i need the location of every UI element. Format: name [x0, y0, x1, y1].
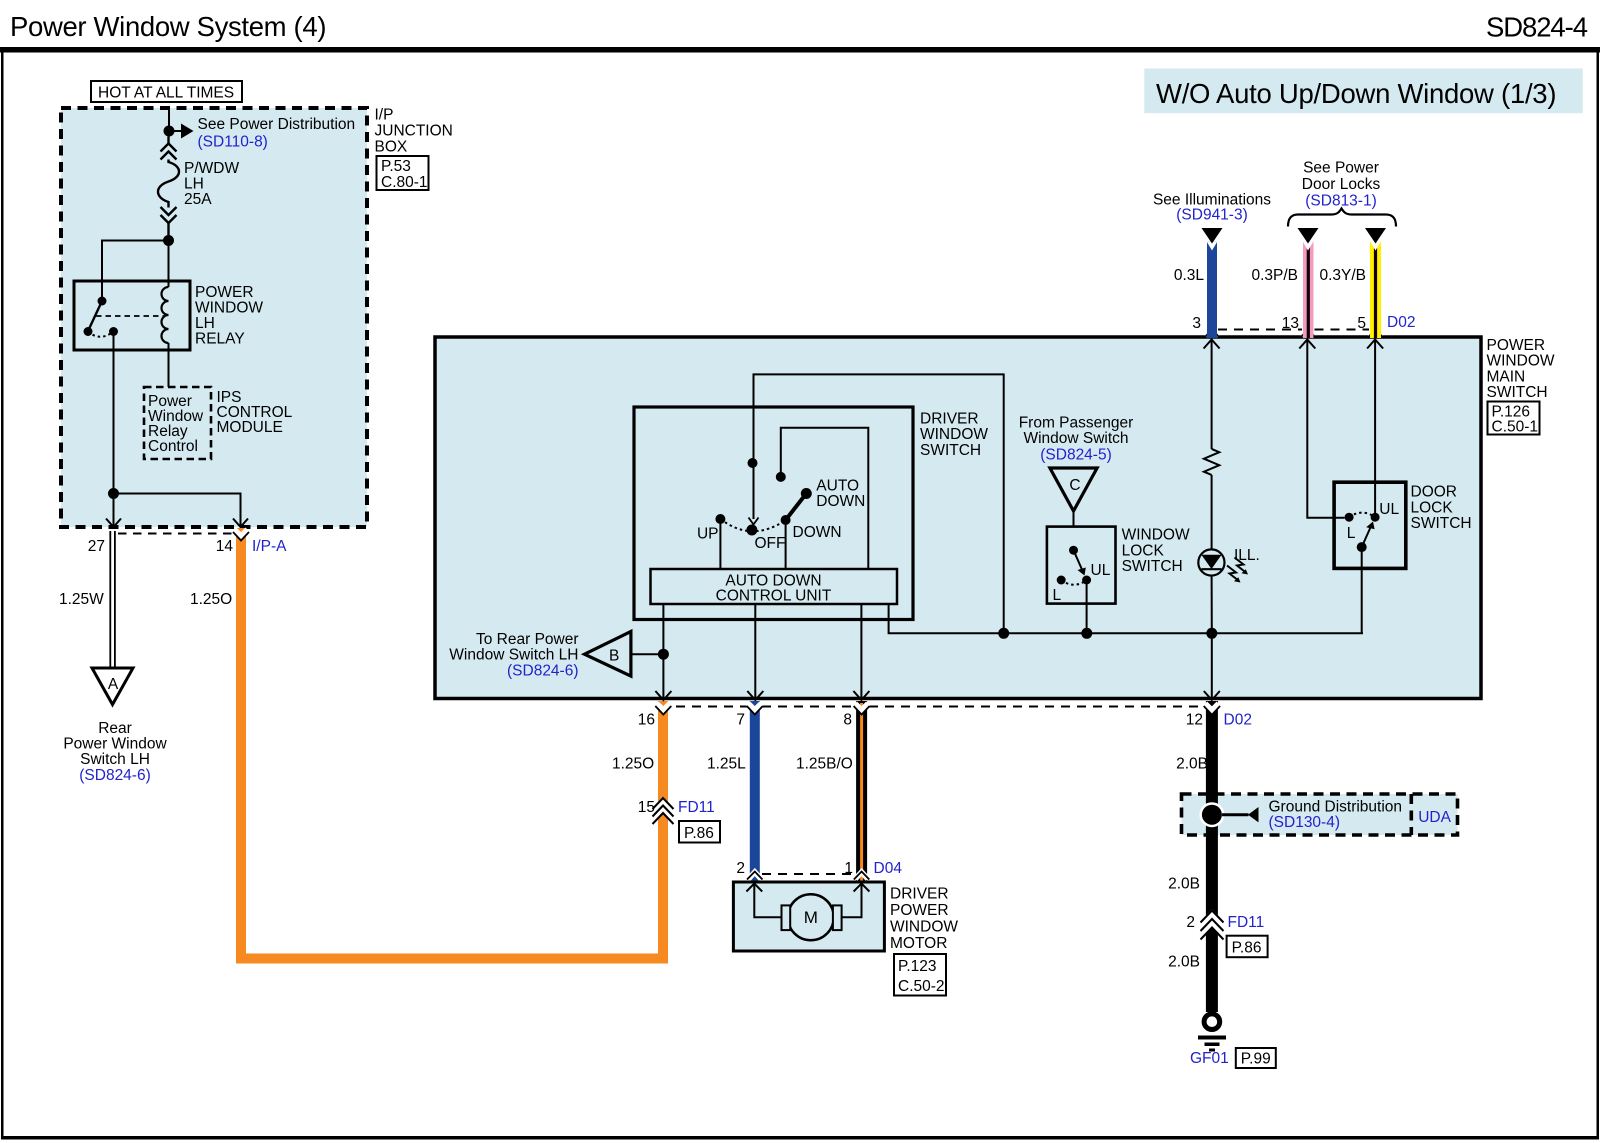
- svg-text:DOWN: DOWN: [793, 524, 842, 541]
- svg-text:DOOR: DOOR: [1411, 484, 1458, 501]
- node on common wire: [748, 458, 758, 468]
- ILL lamp: [1198, 549, 1224, 575]
- bottom page border: [1, 1136, 1599, 1140]
- DOWN contact: [781, 515, 791, 525]
- wire 1.25B/O (black/orange) to motor: [856, 701, 867, 883]
- svg-text:LH: LH: [184, 176, 204, 193]
- wire bus to pin 12: [1211, 633, 1213, 697]
- svg-text:0.3Y/B: 0.3Y/B: [1319, 267, 1366, 284]
- svg-text:P.53: P.53: [381, 158, 411, 175]
- P.99 page box: [1236, 1048, 1276, 1068]
- svg-text:D04: D04: [874, 860, 903, 877]
- ground distribution dashed box: [1182, 794, 1458, 835]
- black ground wire 2.0B: [1206, 701, 1218, 1012]
- off-page triangle A: [92, 668, 133, 705]
- resistor: [1204, 449, 1219, 475]
- svg-text:P.86: P.86: [684, 825, 714, 842]
- svg-text:25A: 25A: [184, 191, 212, 208]
- svg-text:SWITCH: SWITCH: [1122, 558, 1183, 575]
- wire to relay switch: [102, 241, 169, 282]
- P.86 page box: [679, 821, 720, 843]
- dotted travel arc: [720, 519, 785, 531]
- header rule: [0, 47, 1600, 53]
- window lock switch contacts: [1069, 546, 1078, 555]
- wire window lock to bus: [1086, 580, 1088, 633]
- svg-text:BOX: BOX: [375, 139, 408, 156]
- svg-text:1.25W: 1.25W: [59, 591, 104, 608]
- node at branch: [108, 488, 119, 499]
- P.123 C.50-2 page box: [894, 954, 946, 996]
- svg-text:DRIVER: DRIVER: [890, 886, 949, 903]
- ground distribution arrow: [1222, 813, 1249, 816]
- svg-text:JUNCTION: JUNCTION: [375, 123, 453, 140]
- svg-text:A: A: [108, 676, 119, 693]
- auto-down sense contact: [776, 472, 786, 482]
- window lock switch box: [1047, 527, 1116, 604]
- svg-text:POWER: POWER: [195, 284, 254, 301]
- IPS control module dashed box: [144, 387, 211, 459]
- svg-text:L: L: [1347, 525, 1356, 542]
- svg-text:HOT AT ALL TIMES: HOT AT ALL TIMES: [98, 85, 234, 102]
- svg-text:C.50-2: C.50-2: [898, 978, 945, 995]
- power window main switch box: [435, 337, 1481, 699]
- door lock switch box: [1334, 482, 1406, 568]
- control unit output to pin 8: [860, 604, 862, 697]
- svg-text:See Power: See Power: [1303, 160, 1379, 177]
- wire lamp to bus: [1211, 576, 1213, 634]
- auto-down sense wire: [781, 428, 869, 569]
- wire DOWN contact to control unit: [785, 520, 787, 569]
- wire 0.3P/B (pink): [1303, 242, 1314, 339]
- node (junction dot): [164, 126, 175, 137]
- svg-text:(SD824-6): (SD824-6): [507, 663, 579, 680]
- relay actuation dashed link: [96, 315, 164, 317]
- svg-text:Switch LH: Switch LH: [80, 751, 150, 768]
- node at B triangle tap: [658, 649, 669, 660]
- svg-text:To Rear Power: To Rear Power: [476, 631, 579, 648]
- svg-text:P.86: P.86: [1232, 940, 1262, 957]
- svg-text:C.80-1: C.80-1: [381, 174, 428, 191]
- svg-text:MODULE: MODULE: [217, 419, 283, 436]
- node below fuse: [163, 235, 174, 246]
- right page border: [1597, 52, 1600, 1139]
- fuse P/WDW LH 25A: [158, 137, 179, 241]
- svg-text:M: M: [804, 908, 818, 927]
- brace over door lock wires: [1288, 209, 1396, 227]
- svg-text:SWITCH: SWITCH: [920, 442, 981, 459]
- svg-text:P.99: P.99: [1241, 1051, 1271, 1068]
- junction node with white ring: [1199, 802, 1224, 827]
- wire relay coil to IPS module: [168, 343, 170, 387]
- svg-text:MOTOR: MOTOR: [890, 935, 947, 952]
- svg-text:2.0B: 2.0B: [1168, 954, 1200, 971]
- wire 1.25W (double line) to rear switch: [109, 531, 111, 668]
- connector D04 dashed line: [762, 873, 854, 875]
- connector I/P-A dashed line: [118, 533, 236, 535]
- off-page triangle B: [631, 653, 664, 655]
- wire C to window lock switch: [1073, 511, 1075, 527]
- svg-text:Window Switch: Window Switch: [1023, 430, 1128, 447]
- svg-text:I/P-A: I/P-A: [252, 538, 287, 555]
- svg-text:Door Locks: Door Locks: [1302, 176, 1381, 193]
- svg-text:1.25O: 1.25O: [190, 591, 232, 608]
- svg-text:Window Switch LH: Window Switch LH: [449, 647, 578, 664]
- svg-text:From Passenger: From Passenger: [1019, 415, 1134, 432]
- svg-text:L: L: [1053, 587, 1062, 604]
- svg-text:SD824-4: SD824-4: [1486, 12, 1588, 43]
- lamp light arrows: [1227, 566, 1239, 582]
- svg-text:(SD813-1): (SD813-1): [1305, 193, 1377, 210]
- svg-text:2.0B: 2.0B: [1168, 876, 1200, 893]
- connector-source triangle: [1202, 228, 1223, 244]
- svg-text:D02: D02: [1224, 712, 1252, 729]
- wire 0.3L (blue): [1207, 242, 1217, 339]
- svg-text:ILL.: ILL.: [1234, 547, 1260, 564]
- svg-text:Rear: Rear: [98, 720, 132, 737]
- FD11 inline connector chevrons on orange wire: [653, 798, 674, 824]
- HOT AT ALL TIMES label box: [91, 81, 242, 102]
- notches at motor connector D04: [749, 872, 762, 879]
- svg-text:UP: UP: [697, 526, 719, 543]
- P.86 page box (lower): [1227, 936, 1268, 958]
- svg-text:C.50-1: C.50-1: [1492, 419, 1539, 436]
- wire pin 5 to door lock switch: [1374, 339, 1376, 517]
- pin 14 exit arrow: [233, 519, 248, 528]
- svg-text:SWITCH: SWITCH: [1487, 384, 1548, 401]
- svg-text:LH: LH: [195, 315, 215, 332]
- svg-text:3: 3: [1192, 315, 1201, 332]
- svg-text:14: 14: [216, 538, 234, 555]
- svg-text:2: 2: [1186, 914, 1195, 931]
- svg-text:MAIN: MAIN: [1487, 368, 1526, 385]
- svg-text:1: 1: [844, 860, 853, 877]
- notch at orange pin 16: [657, 704, 670, 711]
- auto down control unit box: [651, 569, 898, 604]
- relay coil: [162, 287, 169, 343]
- svg-text:1.25B/O: 1.25B/O: [796, 756, 853, 773]
- motor M: [788, 894, 834, 940]
- pin 27 exit arrow: [106, 519, 121, 528]
- subtitle highlight: [1144, 69, 1583, 114]
- UP contact: [715, 514, 725, 524]
- left page border: [1, 52, 4, 1139]
- motor brushes: [782, 905, 791, 930]
- see power distribution arrow: [169, 130, 181, 132]
- svg-text:(SD130-4): (SD130-4): [1269, 814, 1341, 831]
- svg-text:POWER: POWER: [1487, 337, 1546, 354]
- svg-text:P/WDW: P/WDW: [184, 160, 239, 177]
- svg-text:WINDOW: WINDOW: [1487, 353, 1555, 370]
- svg-text:WINDOW: WINDOW: [1122, 527, 1190, 544]
- P.126 C.50-1 page box: [1488, 402, 1540, 435]
- svg-text:WINDOW: WINDOW: [890, 919, 958, 936]
- svg-text:Power Window System (4): Power Window System (4): [10, 11, 327, 42]
- svg-text:7: 7: [736, 712, 745, 729]
- svg-text:W/O Auto Up/Down Window (1/3): W/O Auto Up/Down Window (1/3): [1156, 78, 1557, 109]
- svg-text:16: 16: [638, 712, 655, 729]
- svg-text:0.3P/B: 0.3P/B: [1251, 267, 1298, 284]
- arrow toward OFF contact: [749, 518, 759, 525]
- FD11 inline connector chevrons on black wire: [1201, 911, 1224, 940]
- off-page triangle C: [1050, 468, 1097, 511]
- svg-text:(SD824-6): (SD824-6): [79, 767, 151, 784]
- svg-text:2.0B: 2.0B: [1176, 756, 1208, 773]
- svg-text:Control: Control: [148, 438, 198, 455]
- wire branch to pin 14: [114, 494, 241, 528]
- svg-text:GF01: GF01: [1190, 1050, 1229, 1067]
- svg-text:2: 2: [736, 860, 745, 877]
- svg-text:27: 27: [88, 538, 105, 555]
- svg-text:B: B: [609, 648, 619, 665]
- svg-text:D02: D02: [1387, 314, 1415, 331]
- svg-text:POWER: POWER: [890, 902, 949, 919]
- svg-text:1.25L: 1.25L: [707, 756, 746, 773]
- svg-text:15: 15: [638, 799, 655, 816]
- control unit output to pin 7: [754, 604, 756, 697]
- svg-text:(SD824-5): (SD824-5): [1040, 447, 1112, 464]
- wire from box top to node: [168, 108, 170, 131]
- motor wires: [754, 884, 784, 917]
- chevron notch at pin 14: [235, 530, 248, 537]
- svg-text:C: C: [1069, 477, 1080, 494]
- illumination branch wire with resistor: [1211, 339, 1213, 449]
- wire relay switch output: [113, 332, 115, 494]
- control unit output to ground bus: [889, 604, 1363, 633]
- svg-text:8: 8: [843, 712, 852, 729]
- wire to relay coil: [168, 241, 170, 288]
- svg-text:P.123: P.123: [898, 958, 937, 975]
- svg-text:WINDOW: WINDOW: [920, 426, 988, 443]
- notch: [1207, 242, 1218, 251]
- power window LH relay box: [74, 281, 190, 350]
- wire 0.3Y/B (yellow): [1370, 242, 1381, 339]
- svg-text:(SD110-8): (SD110-8): [198, 134, 268, 151]
- svg-text:LOCK: LOCK: [1122, 542, 1165, 559]
- wire from switch common up and over to bus: [754, 374, 1004, 633]
- svg-text:UL: UL: [1379, 501, 1399, 518]
- orange wire 1.25O pin14 to pin16 run: [241, 528, 663, 959]
- svg-text:0.3L: 0.3L: [1174, 267, 1205, 284]
- switch arm DOWN to AUTO DOWN: [786, 494, 807, 521]
- svg-text:Power Window: Power Window: [63, 736, 167, 753]
- svg-text:UDA: UDA: [1418, 809, 1451, 826]
- svg-text:FD11: FD11: [678, 799, 715, 816]
- svg-text:WINDOW: WINDOW: [195, 300, 263, 317]
- bus nodes: [998, 628, 1009, 639]
- wire 1.25L (blue) to motor: [750, 701, 760, 883]
- notches at bottom of wires 3 13 5: [1206, 330, 1218, 337]
- door lock switch contacts: [1345, 513, 1354, 522]
- connector D02 dashed line (bottom): [676, 706, 748, 708]
- svg-text:SWITCH: SWITCH: [1411, 515, 1472, 532]
- wire door lock to bus: [1361, 547, 1363, 633]
- svg-text:12: 12: [1186, 712, 1203, 729]
- svg-text:I/P: I/P: [375, 107, 394, 124]
- svg-text:FD11: FD11: [1228, 914, 1265, 931]
- svg-text:DOWN: DOWN: [816, 493, 865, 510]
- entry arrows at box top pins 3 13 5: [1204, 340, 1220, 349]
- wire UP contact to control unit: [719, 519, 721, 569]
- relay switch contacts: [101, 281, 103, 301]
- motor entry arrows: [746, 884, 762, 892]
- exit arrows at box bottom pins 16 7 8 12: [655, 691, 671, 700]
- svg-text:1.25O: 1.25O: [612, 756, 654, 773]
- svg-text:See Power Distribution: See Power Distribution: [198, 116, 356, 133]
- connector D02 dashed line (top): [1218, 329, 1302, 331]
- svg-text:DRIVER: DRIVER: [920, 411, 979, 428]
- OFF contact: [746, 525, 757, 536]
- I/P junction box (dashed, hot-at-all-times block): [61, 108, 367, 527]
- ground GF01 symbol: [1204, 1014, 1220, 1030]
- driver power window motor box: [733, 882, 884, 951]
- control unit output to pin 16: [662, 604, 664, 697]
- svg-text:CONTROL UNIT: CONTROL UNIT: [716, 588, 832, 605]
- svg-text:LOCK: LOCK: [1411, 499, 1454, 516]
- P.53 C.80-1 page box: [377, 156, 429, 190]
- svg-text:(SD941-3): (SD941-3): [1176, 207, 1248, 224]
- driver window switch box: [634, 407, 913, 620]
- wire to pin 27: [113, 494, 115, 528]
- svg-text:UL: UL: [1091, 562, 1111, 579]
- svg-text:RELAY: RELAY: [195, 331, 245, 348]
- wire pin 13 to door lock switch: [1307, 339, 1344, 518]
- svg-text:Ground Distribution: Ground Distribution: [1269, 799, 1403, 816]
- svg-text:OFF: OFF: [755, 535, 786, 552]
- AUTO DOWN contact: [801, 488, 812, 499]
